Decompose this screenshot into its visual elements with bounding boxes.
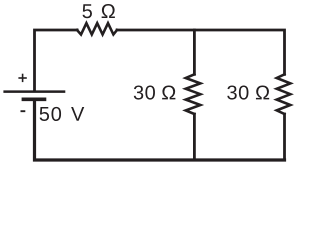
label 30 (value of R2) (134, 85, 155, 99)
battery minus sign (21, 110, 26, 112)
battery plus sign (18, 74, 26, 82)
wire middle branch upper (193, 30, 196, 74)
resistor R1 5-ohm zigzag (77, 23, 117, 34)
resistor R3 30-ohm zigzag (right branch) (277, 74, 291, 114)
resistor R2 30-ohm zigzag (middle branch) (186, 74, 201, 114)
label ohm symbol of R1 (102, 4, 115, 18)
label 5 (value of R1) (83, 4, 92, 18)
label 30 (value of R3) (227, 85, 248, 99)
wire middle branch lower (193, 114, 196, 160)
battery V1 positive plate (long) (3, 90, 65, 93)
label V (battery voltage unit) (71, 107, 84, 121)
label ohm symbol of R3 (256, 85, 269, 99)
battery V1 negative plate (short) (22, 97, 47, 101)
wire bottom segment (35, 99, 285, 160)
label 50 (battery voltage) (40, 107, 61, 121)
wire top-left segment (35, 30, 78, 91)
wire top-right segment (117, 30, 285, 74)
label ohm symbol of R2 (162, 85, 175, 99)
wire right lower segment (283, 114, 286, 160)
